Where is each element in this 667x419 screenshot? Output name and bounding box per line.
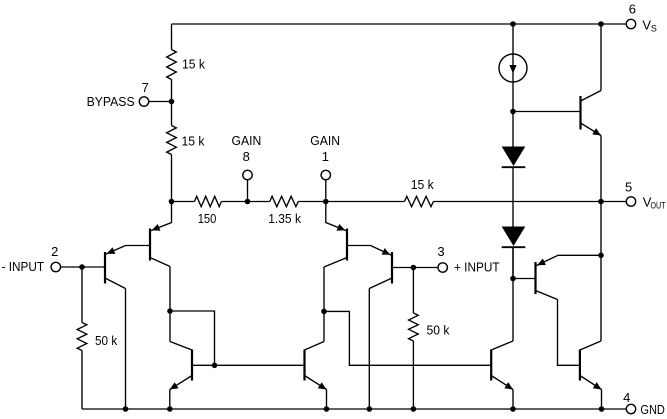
Q7 emitter diagonal xyxy=(491,376,513,390)
pin number 2 xyxy=(51,244,58,259)
Q2 emitter diagonal xyxy=(150,202,172,232)
diode D1 xyxy=(502,147,526,168)
label GAIN 1 xyxy=(310,133,340,164)
node VOUT rail junction xyxy=(598,199,604,205)
resistor R2 15 k xyxy=(167,126,177,155)
transistor Q9 PNP output - bar xyxy=(534,262,536,294)
node mid rail left / Q2 emitter xyxy=(169,199,175,205)
terminal pin 6 VS xyxy=(626,19,635,28)
svg-text:1: 1 xyxy=(322,149,329,164)
node -input / R6 junction xyxy=(79,264,85,270)
net label VOUT xyxy=(643,195,666,211)
node gain 1 xyxy=(323,199,329,205)
Q9 emitter diagonal xyxy=(536,255,602,266)
pin number 4 xyxy=(623,390,630,405)
wire current source vertical xyxy=(512,24,514,147)
svg-text:+ INPUT: + INPUT xyxy=(454,259,500,274)
Q8 collector diagonal xyxy=(580,341,601,350)
wire Q7 collector up to bias node xyxy=(512,247,514,341)
terminal pin 7 BYPASS xyxy=(139,97,148,106)
wire mirror node to base tie xyxy=(170,311,215,365)
svg-text:BYPASS: BYPASS xyxy=(87,94,135,109)
svg-text:3: 3 xyxy=(437,244,444,259)
Q9 emitter arrow xyxy=(537,259,546,266)
wire Q6 emitter to ground xyxy=(169,390,171,410)
wire top supply rail xyxy=(172,23,627,25)
wire signal node to Q7 base xyxy=(324,311,491,365)
wire Q1 collector to ground xyxy=(125,289,127,410)
wire R2 to mid rail xyxy=(171,155,173,202)
svg-text:8: 8 xyxy=(243,149,250,164)
node bias upper junction xyxy=(510,109,516,115)
Q7 emitter arrow xyxy=(504,382,513,389)
wire D1 to D2 xyxy=(512,167,514,226)
node Q7 emitter at ground rail xyxy=(510,406,516,412)
Q5 emitter diagonal xyxy=(305,376,327,390)
Q3 base wire to Q4 emitter xyxy=(347,245,371,247)
wire gain1 terminal stub xyxy=(325,180,327,202)
Q7 collector diagonal xyxy=(491,341,513,350)
Q10 emitter diagonal xyxy=(581,123,602,136)
svg-text:15 k: 15 k xyxy=(182,134,205,149)
wire -input node down to R6 xyxy=(81,267,83,323)
transistor Q8 NPN output - bar xyxy=(579,350,581,381)
node bypass junction xyxy=(169,99,175,105)
net label GND xyxy=(640,402,665,417)
value label 50 k right xyxy=(427,323,450,338)
terminal GAIN pin 8 xyxy=(243,170,252,179)
node mirror input xyxy=(167,308,173,314)
resistor R4 1.35 k xyxy=(270,196,299,206)
svg-text:7: 7 xyxy=(142,80,149,95)
svg-text:OUT: OUT xyxy=(651,200,666,210)
value label 15 k for R5 xyxy=(411,177,434,192)
Q8 emitter diagonal xyxy=(580,376,602,390)
wire top rail to R1 xyxy=(171,24,173,50)
wire Q6-Q5 base tie xyxy=(192,364,305,366)
node Q9 emitter on output line xyxy=(598,253,604,259)
Q9 collector diagonal xyxy=(536,291,558,300)
node Q8 emitter at ground rail xyxy=(599,406,605,412)
wire ground rail xyxy=(82,408,626,410)
net label - INPUT xyxy=(2,259,45,274)
node base tie junction xyxy=(212,363,218,369)
transistor Q7 NPN driver - bar xyxy=(490,350,492,381)
svg-text:15 k: 15 k xyxy=(411,177,434,192)
Q3 emitter arrow xyxy=(337,224,346,231)
svg-text:1.35 k: 1.35 k xyxy=(268,211,301,226)
wire Q4 collector to ground xyxy=(368,289,370,410)
transistor Q3 PNP - bar xyxy=(346,229,348,261)
wire R3 to gain8 node to R4 xyxy=(221,201,269,203)
Q8 emitter arrow xyxy=(593,382,602,389)
node top-rail to current-source xyxy=(510,21,516,27)
Q5 emitter arrow xyxy=(318,382,327,389)
node gain 8 xyxy=(245,199,251,205)
terminal GAIN pin 1 xyxy=(321,170,330,179)
value label 50 k left xyxy=(95,333,118,348)
wire Q5 collector up to node xyxy=(323,311,325,341)
Q8 base wire from Q9 collector xyxy=(558,300,580,366)
wire R5 to VOUT terminal xyxy=(433,201,626,203)
resistor R5 15 k feedback xyxy=(404,196,433,206)
wire Q1 emitter to Q2 base xyxy=(126,245,151,247)
svg-text:6: 6 xyxy=(629,2,636,17)
node Q1 collector at ground rail xyxy=(123,406,129,412)
wire output vertical line xyxy=(600,136,602,342)
Q1 emitter diagonal xyxy=(105,246,126,255)
wire Q3 collector down to Q5 collector node xyxy=(323,267,325,311)
svg-text:GAIN: GAIN xyxy=(232,133,262,148)
current source I1 arrow xyxy=(509,65,516,74)
node Q3-Q5 collector junction xyxy=(321,309,327,315)
Q6 collector diagonal xyxy=(170,342,192,351)
wire -input to Q1 base xyxy=(61,266,106,268)
transistor Q10 NPN - bar xyxy=(579,96,581,130)
net label + INPUT xyxy=(454,259,500,274)
wire R7 to ground rail xyxy=(412,341,414,409)
net label BYPASS xyxy=(87,94,135,109)
svg-text:150: 150 xyxy=(198,211,217,226)
svg-text:- INPUT: - INPUT xyxy=(2,259,45,274)
pin number 7 xyxy=(142,80,149,95)
Q4 emitter arrow xyxy=(382,248,391,255)
terminal pin 2 minus input xyxy=(51,262,60,271)
value label 1.35 k xyxy=(268,211,301,226)
svg-text:4: 4 xyxy=(623,390,630,405)
Q4 collector diagonal xyxy=(369,278,392,289)
wire R1 to bypass node xyxy=(171,80,173,126)
svg-text:S: S xyxy=(651,23,657,33)
transistor Q2 PNP - bar xyxy=(149,229,151,261)
terminal pin 3 plus input xyxy=(438,263,447,272)
value label 150 xyxy=(198,211,217,226)
current source I1 circle xyxy=(499,54,527,82)
transistor Q4 PNP input - bar xyxy=(391,252,393,284)
wire Q10 collector to top rail xyxy=(600,24,602,91)
resistor R7 50 k xyxy=(409,313,419,341)
wire mid rail segment to R3 xyxy=(172,201,195,203)
Q2 collector diagonal xyxy=(150,258,170,267)
svg-text:50 k: 50 k xyxy=(427,323,450,338)
svg-text:50 k: 50 k xyxy=(95,333,118,348)
node top-rail to Q10 collector xyxy=(598,21,604,27)
Q10 emitter arrow xyxy=(592,128,601,135)
wire R4 to gain1 node to R5 xyxy=(298,201,404,203)
value label 15 k for R1 xyxy=(182,57,205,72)
node +input / R7 junction xyxy=(411,265,417,271)
Q5 collector diagonal xyxy=(305,342,325,351)
Q1 emitter arrow xyxy=(107,247,116,254)
svg-text:15 k: 15 k xyxy=(182,57,205,72)
wire Q7 emitter to ground xyxy=(512,390,514,410)
wire D2 to bias lower node xyxy=(512,247,514,278)
resistor R3 150 xyxy=(195,196,222,206)
transistor Q5 NPN mirror - bar xyxy=(303,350,305,381)
transistor Q1 PNP input - bar xyxy=(104,252,106,284)
node bias lower junction xyxy=(510,276,516,282)
resistor R1 15 k xyxy=(167,50,177,80)
transistor Q6 NPN mirror - bar xyxy=(191,350,193,381)
node Q6 emitter at ground rail xyxy=(167,406,173,412)
diode D2 xyxy=(502,227,526,248)
terminal pin 5 VOUT xyxy=(626,197,635,206)
wire Q8 emitter to ground xyxy=(601,390,603,410)
wire R6 to ground rail xyxy=(81,351,83,410)
pin number 5 xyxy=(625,180,632,195)
net label VS xyxy=(642,18,657,34)
Q2 emitter arrow xyxy=(152,224,161,231)
Q4 base wire to +input xyxy=(392,267,438,269)
Q9 base wire from bias node xyxy=(513,278,536,280)
Q6 emitter arrow xyxy=(170,382,179,389)
pin number 3 xyxy=(437,244,444,259)
Q3 emitter diagonal xyxy=(326,202,347,232)
wire gain8 terminal stub xyxy=(247,180,249,202)
wire Q2 collector down to mirror node xyxy=(169,267,171,342)
node Q4 collector at ground rail xyxy=(367,406,373,412)
svg-text:5: 5 xyxy=(625,180,632,195)
pin number 6 xyxy=(629,2,636,17)
node Q5 emitter at ground rail xyxy=(324,406,330,412)
Q1 collector diagonal xyxy=(105,278,126,289)
Q6 emitter diagonal xyxy=(170,376,192,390)
svg-text:2: 2 xyxy=(51,244,58,259)
wire +input node down to R7 xyxy=(412,268,414,314)
wire bypass terminal lead xyxy=(149,101,172,103)
wire Q5 emitter to ground xyxy=(326,390,328,410)
terminal pin 4 GND xyxy=(626,404,635,413)
value label 15 k for R2 xyxy=(182,134,205,149)
Q3 collector diagonal xyxy=(324,258,347,268)
Q10 collector diagonal xyxy=(581,91,602,102)
Q10 base wire from bias node xyxy=(513,111,581,113)
svg-text:GND: GND xyxy=(640,402,665,417)
svg-text:GAIN: GAIN xyxy=(310,133,340,148)
Q4 emitter diagonal xyxy=(371,246,393,256)
label GAIN 8 xyxy=(232,133,262,164)
node R7 at ground rail xyxy=(411,406,417,412)
resistor R6 50 k xyxy=(77,323,87,351)
